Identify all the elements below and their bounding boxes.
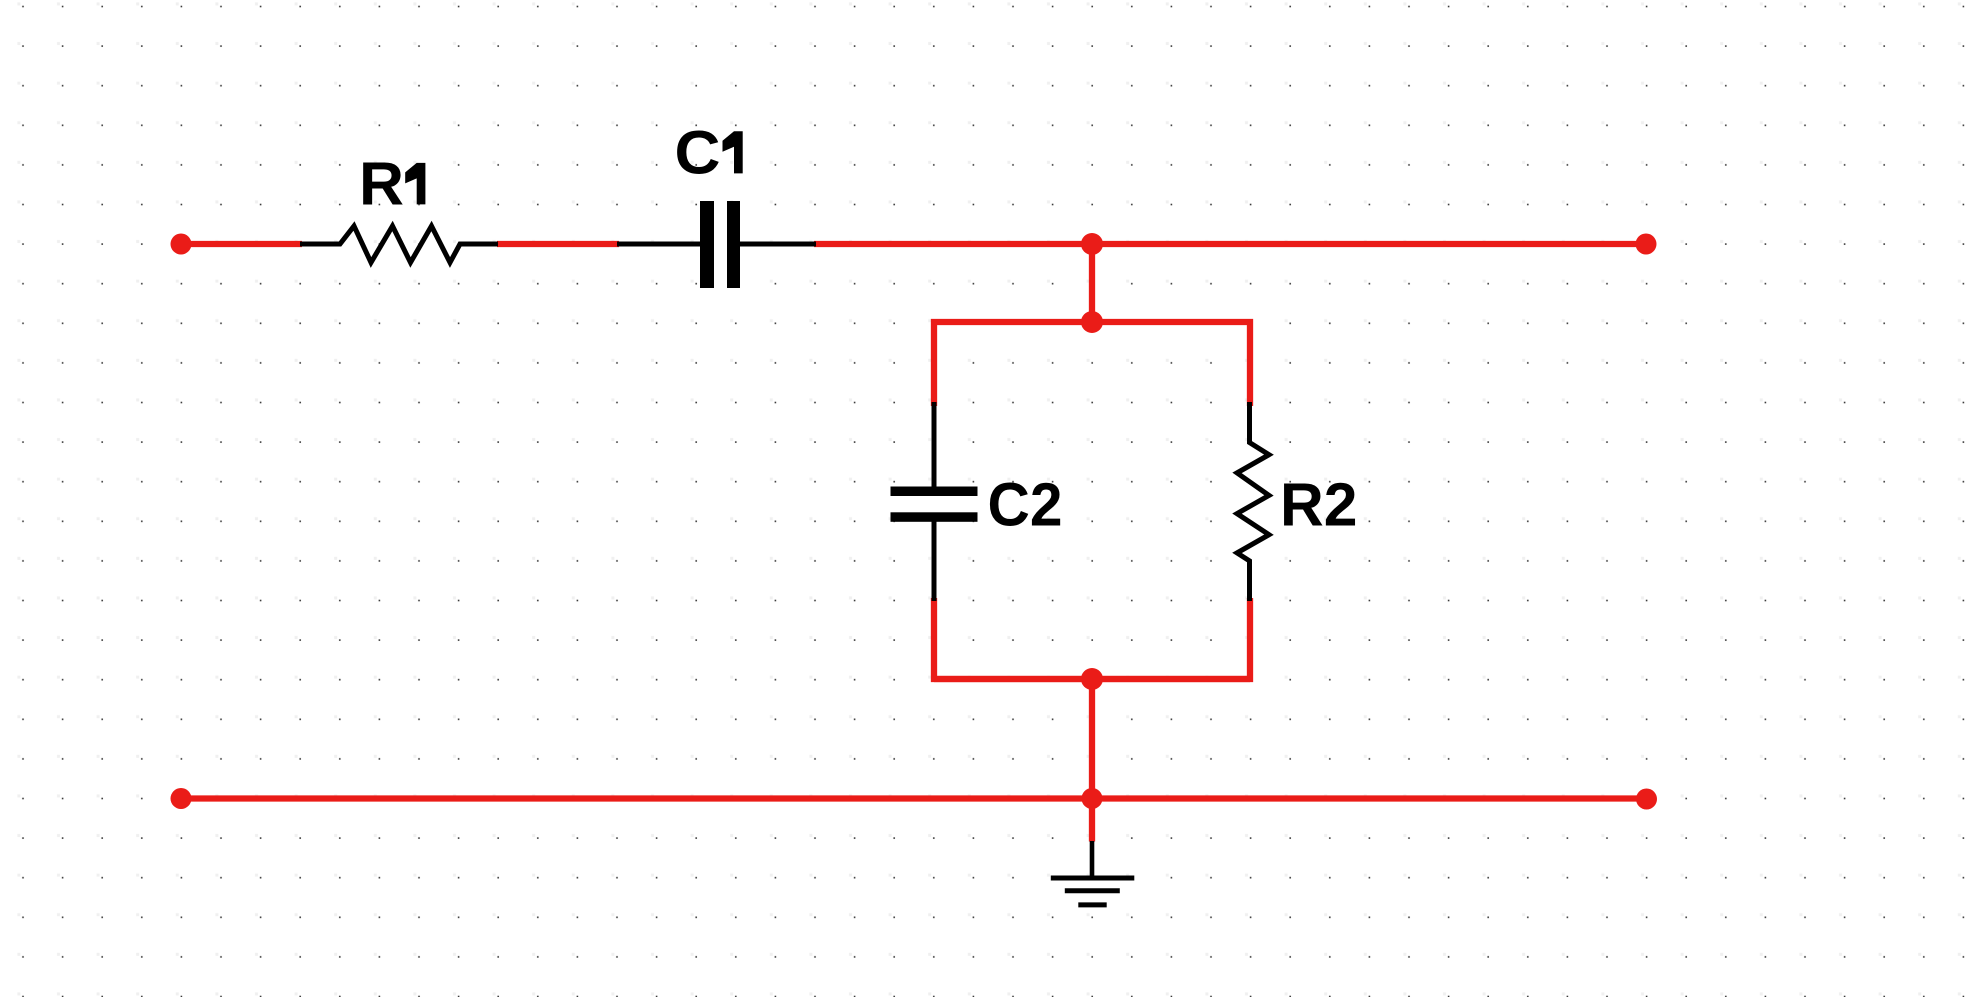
svg-text:R: R bbox=[359, 150, 404, 218]
svg-text:R2: R2 bbox=[1280, 471, 1358, 539]
svg-text:C2: C2 bbox=[988, 471, 1063, 539]
svg-text:C: C bbox=[675, 119, 721, 187]
